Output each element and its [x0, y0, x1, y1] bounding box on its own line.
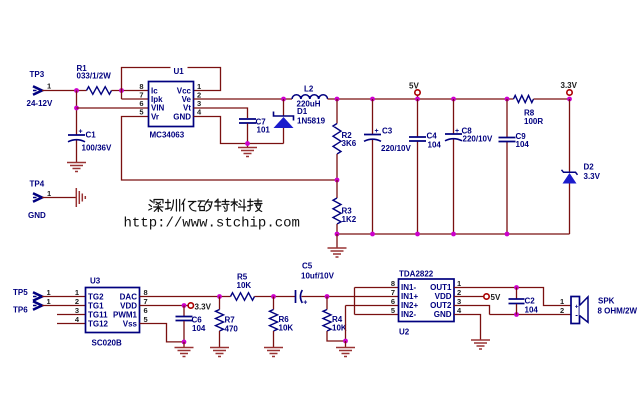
diode D1 1N5819 [274, 99, 326, 144]
power port TP4 [28, 180, 46, 221]
svg-text:IN2+: IN2+ [401, 301, 418, 310]
svg-text:5: 5 [144, 315, 148, 324]
pin numbers U1 right [197, 82, 202, 117]
svg-text:+: + [375, 128, 379, 135]
wire [345, 306, 347, 342]
svg-text:R7: R7 [225, 316, 236, 325]
resistor R5 [231, 273, 255, 301]
wire [534, 98, 570, 100]
svg-text:6: 6 [144, 306, 148, 315]
wire [42, 197, 76, 199]
wire [140, 305, 189, 307]
svg-text:5: 5 [391, 306, 395, 315]
resistor R3 [333, 180, 357, 234]
svg-text:1: 1 [47, 189, 51, 198]
node feedback junction [335, 178, 340, 183]
svg-text:220/10V: 220/10V [463, 135, 493, 144]
svg-text:C1: C1 [86, 131, 97, 140]
svg-text:TG11: TG11 [88, 311, 108, 320]
node bottom rail junctions [335, 232, 510, 237]
svg-text:2: 2 [75, 297, 79, 306]
svg-text:1: 1 [457, 279, 461, 288]
svg-text:C3: C3 [382, 127, 393, 136]
svg-text:D2: D2 [584, 163, 595, 172]
svg-text:1: 1 [47, 288, 51, 297]
svg-text:7: 7 [144, 297, 148, 306]
svg-text:10uf/10V: 10uf/10V [301, 272, 335, 281]
wire [76, 91, 78, 136]
ground TP4 [76, 188, 85, 207]
svg-text:033/1/2W: 033/1/2W [77, 72, 112, 81]
svg-text:104: 104 [525, 306, 539, 315]
ground C1 [67, 163, 86, 172]
svg-text:3.3V: 3.3V [195, 303, 212, 312]
svg-text:10K: 10K [279, 324, 294, 333]
capacitor C9 [499, 99, 530, 234]
wire [57, 314, 86, 316]
resistor R1 [77, 64, 112, 94]
wire [112, 90, 149, 92]
svg-text:3K6: 3K6 [342, 139, 357, 148]
capacitor C6 [176, 306, 206, 342]
node R4 junction [325, 294, 330, 299]
svg-text:104: 104 [428, 141, 442, 150]
wire [42, 305, 86, 307]
node R4 ground junction [343, 339, 348, 344]
svg-text:TP4: TP4 [30, 180, 45, 189]
wire [302, 296, 399, 298]
wire [337, 233, 570, 235]
node VIN tap junction [74, 106, 79, 111]
svg-text:TP5: TP5 [13, 288, 28, 297]
ground R4 [336, 341, 355, 357]
pin number 1 of TP4 [47, 189, 51, 198]
capacitor C4 [409, 99, 441, 234]
svg-text:24-12V: 24-12V [27, 99, 53, 108]
svg-text:470: 470 [225, 325, 239, 334]
svg-text:OUT2: OUT2 [430, 301, 452, 310]
power port 5V at U2 [484, 293, 501, 302]
op-amp U3 SC020B [86, 277, 140, 348]
zener diode D2 [562, 99, 601, 234]
svg-text:OUT1: OUT1 [430, 283, 452, 292]
svg-text:104: 104 [192, 324, 206, 333]
svg-text:TP6: TP6 [13, 306, 28, 315]
svg-text:7: 7 [391, 288, 395, 297]
svg-text:http://www.stchip.com: http://www.stchip.com [124, 216, 300, 232]
svg-text:Vt: Vt [183, 104, 191, 113]
svg-text:220uH: 220uH [297, 100, 321, 109]
svg-text:GND: GND [434, 310, 452, 319]
node switch junction [281, 97, 286, 102]
wire [42, 296, 86, 298]
wire [354, 288, 356, 315]
svg-text:1K2: 1K2 [342, 215, 357, 224]
svg-text:+: + [79, 129, 83, 136]
power port 3.3V [561, 81, 578, 95]
ground R7 [210, 348, 229, 357]
wire [194, 108, 248, 118]
svg-text:5V: 5V [491, 293, 501, 302]
svg-text:104: 104 [516, 140, 530, 149]
svg-text:IN2-: IN2- [401, 310, 416, 319]
svg-text:10K: 10K [237, 281, 252, 290]
svg-text:TDA2822: TDA2822 [399, 270, 434, 279]
svg-text:+: + [303, 300, 307, 307]
wire [247, 124, 249, 148]
op-amp U2 TDA2822 [399, 270, 455, 337]
svg-text:3: 3 [457, 297, 461, 306]
svg-text:-: - [575, 310, 578, 319]
resistor R6 [270, 297, 294, 348]
svg-text:C2: C2 [525, 297, 536, 306]
svg-text:U3: U3 [90, 277, 101, 286]
svg-text:100/36V: 100/36V [82, 144, 112, 153]
svg-text:101: 101 [257, 126, 271, 135]
node R6 junction [271, 294, 276, 299]
node input junction [74, 88, 79, 93]
node C6 ground junction [182, 340, 187, 345]
node C7 ground junction [245, 141, 250, 146]
capacitor C5 [296, 262, 335, 307]
op-amp U1 MC34063 [149, 64, 194, 140]
svg-text:PWM1: PWM1 [113, 311, 138, 320]
wire [122, 98, 149, 100]
pin number 1 of TP3 [47, 82, 51, 91]
svg-text:Vr: Vr [151, 113, 159, 122]
wire [346, 305, 399, 307]
ground C7 [238, 148, 257, 157]
svg-text:IN1-: IN1- [401, 283, 416, 292]
power port TP5 [13, 288, 42, 301]
pin numbers U3 left [75, 288, 80, 324]
svg-text:C5: C5 [302, 262, 313, 271]
svg-text:VDD: VDD [120, 302, 137, 311]
ground bottom rail [328, 234, 347, 257]
svg-text:MC34063: MC34063 [150, 131, 185, 140]
resistor R2 [333, 99, 357, 180]
resistor R8 [514, 95, 544, 126]
pin numbers SPK [560, 297, 564, 315]
node C2 bottom junction [514, 312, 519, 317]
svg-text:10K: 10K [332, 324, 347, 333]
svg-text:1: 1 [47, 82, 51, 91]
svg-text:3: 3 [75, 306, 79, 315]
pin numbers U2 left [391, 279, 395, 315]
svg-text:TP3: TP3 [30, 70, 45, 79]
wire [454, 288, 571, 306]
svg-text:TG2: TG2 [88, 293, 104, 302]
svg-text:TG1: TG1 [88, 302, 104, 311]
node rail junctions [335, 97, 572, 102]
wire [355, 287, 399, 289]
watermark Chinese company name [149, 199, 262, 212]
svg-text:GND: GND [173, 113, 191, 122]
svg-text:IN1+: IN1+ [401, 292, 418, 301]
power port 5V [409, 82, 420, 100]
pin numbers TP5 TP6 wires [47, 288, 51, 306]
svg-text:L2: L2 [304, 85, 314, 94]
ground U2 [471, 340, 490, 349]
svg-text:C4: C4 [427, 132, 438, 141]
svg-text:TG12: TG12 [88, 320, 109, 329]
pin numbers U2 right [457, 279, 462, 315]
svg-text:5V: 5V [409, 82, 419, 91]
svg-text:220/10V: 220/10V [381, 144, 411, 153]
wire [454, 296, 484, 298]
svg-text:+: + [455, 128, 459, 135]
svg-text:3.3V: 3.3V [584, 172, 601, 181]
svg-text:U2: U2 [399, 328, 410, 337]
wire [194, 117, 284, 144]
speaker SPK [571, 297, 637, 324]
svg-text:1: 1 [47, 297, 51, 306]
svg-text:1: 1 [75, 288, 79, 297]
node C2 top junction [514, 285, 519, 290]
resistor R4 [323, 297, 347, 342]
svg-text:1: 1 [560, 297, 564, 306]
wire [454, 315, 481, 340]
ground R6 [264, 348, 283, 357]
svg-text:3.3V: 3.3V [561, 81, 578, 90]
wire [122, 117, 338, 181]
inductor L2 [292, 85, 328, 109]
wire [454, 306, 490, 315]
svg-text:5: 5 [139, 108, 143, 117]
svg-text:VDD: VDD [435, 292, 452, 301]
svg-text:Vss: Vss [123, 320, 138, 329]
node R7 junction [217, 294, 222, 299]
wire [140, 324, 185, 342]
pin numbers U1 left [139, 82, 143, 117]
wire [255, 296, 296, 298]
power port 3.3V at U3 [188, 303, 212, 312]
wire [490, 314, 572, 316]
wire [77, 107, 149, 109]
ground C6 [175, 342, 194, 357]
capacitor C8 [445, 99, 493, 234]
svg-text:DAC: DAC [120, 293, 138, 302]
wire [328, 98, 514, 100]
wire [76, 141, 78, 163]
power port TP3 [27, 70, 53, 108]
svg-text:GND: GND [28, 211, 46, 220]
wire [122, 68, 221, 100]
svg-text:U1: U1 [174, 67, 185, 76]
svg-text:8 OHM/2W: 8 OHM/2W [598, 307, 637, 316]
svg-text:SPK: SPK [598, 297, 615, 306]
resistor R7 [216, 297, 239, 348]
capacitor C1 [68, 129, 112, 153]
svg-text:VIN: VIN [151, 104, 165, 113]
svg-text:+: + [575, 303, 579, 310]
svg-text:SC020B: SC020B [92, 339, 122, 348]
wire [42, 90, 87, 92]
capacitor C2 [509, 288, 539, 315]
wire [140, 296, 231, 298]
svg-text:2: 2 [560, 306, 564, 315]
svg-text:100R: 100R [524, 117, 543, 126]
node R1 output junction [119, 88, 124, 93]
capacitor C7 [239, 118, 270, 135]
node C6 junction [182, 303, 187, 308]
pin numbers U3 right [144, 288, 148, 324]
capacitor C3 [364, 99, 411, 234]
watermark URL text [124, 216, 300, 232]
svg-text:6: 6 [391, 297, 395, 306]
power port TP6 [13, 301, 42, 314]
svg-text:8: 8 [391, 279, 395, 288]
svg-text:8: 8 [144, 288, 148, 297]
svg-text:2: 2 [457, 288, 461, 297]
svg-text:1N5819: 1N5819 [297, 117, 326, 126]
wire [194, 98, 293, 100]
wire [57, 323, 86, 325]
wire [355, 314, 399, 316]
